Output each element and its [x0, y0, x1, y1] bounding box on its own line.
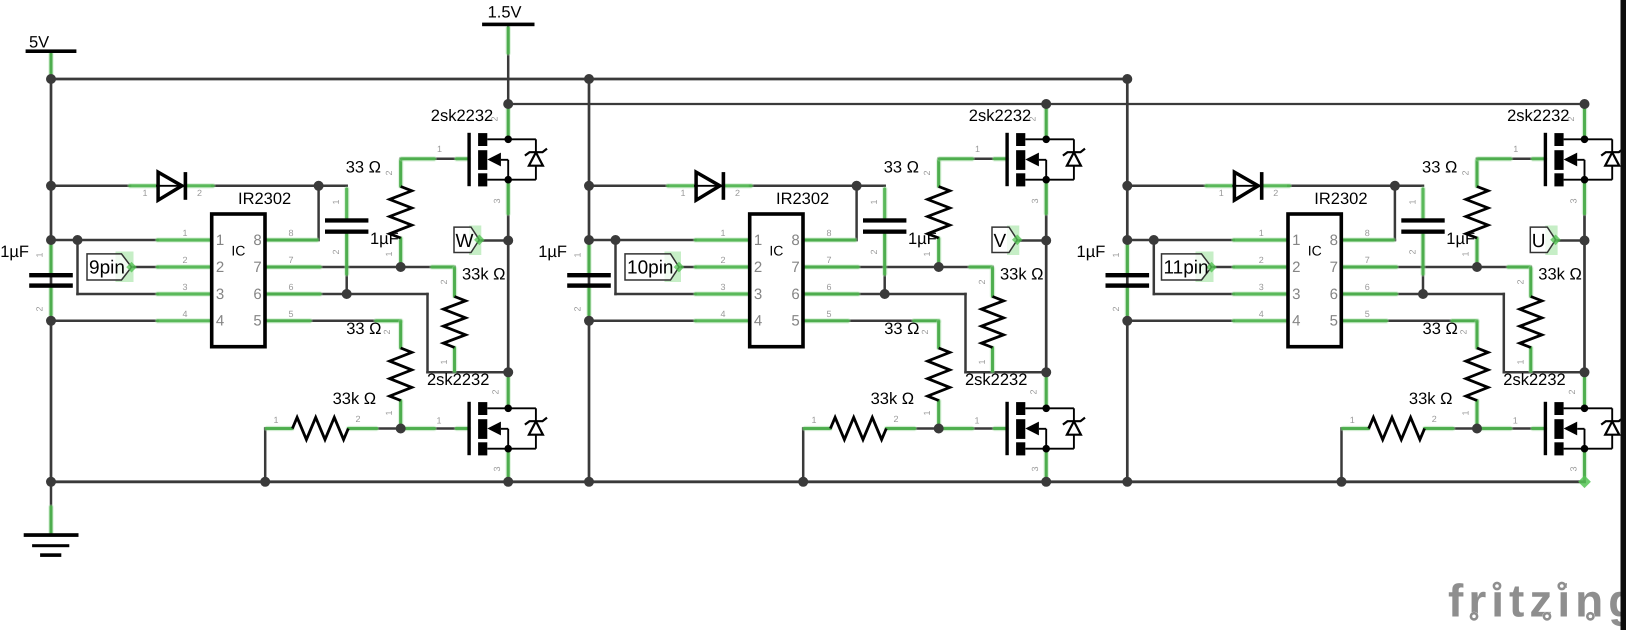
- wire: block 2 output label wire: [1017, 239, 1046, 242]
- svg-text:33 Ω: 33 Ω: [884, 159, 919, 177]
- transistor Q2L bottom 2sk2232: [1007, 402, 1085, 456]
- svg-text:6: 6: [253, 286, 261, 303]
- capacitor C3b 1uF (bootstrap): [1401, 199, 1475, 254]
- svg-text:33 Ω: 33 Ω: [1423, 320, 1458, 338]
- svg-text:4: 4: [754, 313, 762, 330]
- fritzing watermark: [1448, 575, 1626, 627]
- wire: block 2 IC pin 6 row: [803, 293, 966, 296]
- svg-text:1: 1: [35, 252, 45, 257]
- svg-text:1: 1: [1515, 359, 1525, 364]
- wire: block 2 top 33ohm stubs: [937, 159, 940, 187]
- svg-text:8: 8: [253, 232, 261, 249]
- svg-text:6: 6: [791, 286, 799, 303]
- svg-text:7: 7: [826, 255, 831, 265]
- wire: block 2 IC pin 5 row: [803, 320, 939, 323]
- svg-text:3: 3: [1568, 466, 1578, 471]
- svg-text:7: 7: [1365, 255, 1370, 265]
- junction dots block 2: [584, 74, 1051, 487]
- svg-text:8: 8: [826, 228, 831, 238]
- wire: block 3 IC pin 8 row: [1341, 239, 1395, 242]
- svg-text:2: 2: [355, 414, 360, 424]
- svg-text:6: 6: [1330, 286, 1338, 303]
- svg-text:2sk2232: 2sk2232: [1507, 107, 1569, 125]
- wire: block 2 IC pin 3 row: [616, 293, 696, 296]
- capacitor C2a 1uF (left electrolytic): [538, 243, 611, 312]
- resistor R2b 33k Ohm upper gate-source: [977, 266, 1044, 365]
- wire: block 1 diode junction to bootstrap cap: [319, 185, 347, 188]
- wire: block 3 IC pin 7 row to gate resistor: [1341, 266, 1531, 269]
- svg-text:7: 7: [253, 259, 261, 276]
- wire: block 3 top gate row: [1477, 158, 1544, 161]
- wire: block 3 diode row right segment to junction: [1288, 185, 1395, 188]
- svg-text:1: 1: [384, 251, 394, 256]
- diode D2 bootstrap: [680, 172, 740, 200]
- svg-text:5: 5: [253, 313, 261, 330]
- node label 10pin (input): [625, 252, 684, 283]
- svg-text:U: U: [1532, 231, 1546, 252]
- wire: block 2 33k vertical stubs: [991, 267, 994, 297]
- svg-text:2sk2232: 2sk2232: [431, 107, 493, 125]
- svg-text:2: 2: [491, 389, 501, 394]
- svg-text:4: 4: [182, 309, 187, 319]
- wire: block 3 top 33ohm stubs: [1476, 159, 1479, 187]
- svg-text:V: V: [994, 231, 1007, 252]
- svg-text:2: 2: [1029, 389, 1039, 394]
- wire: block 3 diode row left segment: [1127, 185, 1206, 188]
- svg-text:IC: IC: [231, 243, 245, 259]
- svg-text:1: 1: [977, 359, 987, 364]
- svg-text:6: 6: [826, 282, 831, 292]
- wire: block 3 pulldown 33k left leg: [1340, 429, 1343, 482]
- power symbol 5V: [26, 34, 77, 80]
- svg-text:2: 2: [439, 279, 449, 284]
- wire: block 3 IC pin 4 row: [1127, 320, 1234, 323]
- transistor Q2H top 2sk2232: [1007, 133, 1085, 187]
- svg-text:2: 2: [754, 259, 762, 276]
- wire: block 2 IC pin 8 row: [803, 239, 857, 242]
- svg-text:2: 2: [1432, 414, 1437, 424]
- wire: block 2 bottom gate row: [939, 427, 1006, 430]
- resistor R1b 33k Ohm upper gate-source: [439, 266, 506, 365]
- svg-text:2sk2232: 2sk2232: [969, 107, 1031, 125]
- power symbol 1.5V: [482, 4, 534, 105]
- wire: block 1 pulldown 33k row: [265, 427, 292, 430]
- svg-text:1: 1: [182, 228, 187, 238]
- svg-text:2: 2: [977, 279, 987, 284]
- svg-text:5V: 5V: [29, 34, 49, 52]
- svg-text:9pin: 9pin: [89, 257, 125, 278]
- wire: block 1 output label wire: [479, 239, 508, 242]
- op-amp/driver IC U3 IR2302: [1259, 190, 1370, 347]
- svg-text:1µF: 1µF: [0, 243, 29, 261]
- resistor R2c 33 Ohm bottom gate resistor: [884, 320, 979, 426]
- svg-text:1: 1: [142, 188, 147, 198]
- wire: block 1 IC pin 8 row: [265, 239, 319, 242]
- wire: block 1 bottom gate row: [401, 427, 468, 430]
- svg-text:1: 1: [331, 199, 341, 204]
- resistor R3d 33k Ohm pulldown: [1350, 390, 1453, 440]
- svg-text:2: 2: [490, 116, 500, 121]
- svg-text:IR2302: IR2302: [1314, 190, 1367, 208]
- wire: block 2 phase node vertical: [1045, 180, 1048, 373]
- svg-text:2: 2: [869, 249, 879, 254]
- wire: block 1 bottom 33ohm stubs: [399, 321, 402, 348]
- wire: block 3 33k vertical stubs: [1530, 267, 1533, 297]
- wire: block 1 top 33ohm stubs: [399, 159, 402, 187]
- wire: block 3 output label wire: [1556, 239, 1585, 242]
- svg-text:1: 1: [1460, 410, 1470, 415]
- wire: block 3 lower drain row: [1504, 371, 1585, 374]
- svg-text:3: 3: [754, 286, 762, 303]
- svg-text:2sk2232: 2sk2232: [965, 371, 1027, 389]
- wire: block 1 diode row left segment: [51, 185, 130, 188]
- svg-text:1: 1: [1292, 232, 1300, 249]
- node label W (phase output): [454, 226, 485, 256]
- wire: block 3 bottom mosfet source stub: [1583, 449, 1586, 482]
- wire: block 1 phase node vertical: [507, 180, 510, 373]
- svg-text:2: 2: [197, 188, 202, 198]
- svg-text:IR2302: IR2302: [238, 190, 291, 208]
- resistor R3a 33 Ohm top gate resistor: [1422, 144, 1518, 257]
- wire: block 1 diode row right segment to junction: [212, 185, 319, 188]
- svg-text:33k Ω: 33k Ω: [1000, 266, 1044, 284]
- svg-text:1: 1: [720, 228, 725, 238]
- wire: block 2 input label to IC pin 2: [679, 266, 696, 269]
- wire: 1.5V rail right drop to U phase mosfet: [1583, 104, 1585, 139]
- svg-text:2: 2: [893, 414, 898, 424]
- svg-text:3: 3: [720, 282, 725, 292]
- wire: block 3 phase node vertical: [1583, 180, 1586, 373]
- svg-text:7: 7: [791, 259, 799, 276]
- wire: block 3 pulldown 33k row: [1342, 427, 1369, 430]
- node label V (phase output): [992, 226, 1023, 256]
- svg-text:2: 2: [922, 170, 932, 175]
- svg-text:2: 2: [35, 306, 45, 311]
- wire: block 1 IC pin 1 row: [51, 239, 158, 242]
- svg-text:33 Ω: 33 Ω: [346, 320, 381, 338]
- svg-text:1: 1: [754, 232, 762, 249]
- svg-text:3: 3: [1292, 286, 1300, 303]
- svg-text:2: 2: [182, 255, 187, 265]
- svg-text:33 Ω: 33 Ω: [884, 320, 919, 338]
- wire: block 3 IC pin 1 row: [1127, 239, 1234, 242]
- resistor R3c 33 Ohm bottom gate resistor: [1423, 320, 1518, 426]
- wire: 5V top distribution rail: [51, 78, 1127, 81]
- wire: block 3 bottom mosfet drain stub: [1583, 372, 1586, 408]
- wire: block 1 vertical from diode junction to IC pin 8: [317, 186, 320, 240]
- svg-text:5: 5: [288, 309, 293, 319]
- wire: block 2 bottom 33ohm stubs: [937, 321, 940, 348]
- svg-text:2: 2: [1273, 188, 1278, 198]
- wire: block 2 diode junction to bootstrap cap: [857, 185, 885, 188]
- svg-text:2: 2: [573, 306, 583, 311]
- wire: block 1 pin 6 vertical down: [426, 294, 429, 372]
- capacitor C1b 1uF (bootstrap): [325, 199, 399, 254]
- wire: block 2 vertical from diode junction to IC pin 8: [855, 186, 858, 240]
- svg-text:33 Ω: 33 Ω: [346, 159, 381, 177]
- svg-text:33k Ω: 33k Ω: [1538, 266, 1582, 284]
- svg-text:1µF: 1µF: [1077, 243, 1106, 261]
- svg-text:8: 8: [1365, 228, 1370, 238]
- svg-text:2: 2: [1460, 170, 1470, 175]
- resistor R1c 33 Ohm bottom gate resistor: [346, 320, 441, 426]
- resistor R1a 33 Ohm top gate resistor: [346, 144, 442, 257]
- svg-text:3: 3: [1259, 282, 1264, 292]
- wire: block 2 top gate row: [939, 158, 1006, 161]
- green pin highlights block 1: [51, 106, 508, 478]
- wire: block 2 diode row left segment: [589, 185, 668, 188]
- wire: block 1 IC pin 7 row to gate resistor: [265, 266, 455, 269]
- svg-text:7: 7: [288, 255, 293, 265]
- wire: block 2 top mosfet drain stub: [1045, 104, 1048, 139]
- wire: block 2 pulldown 33k left leg: [802, 429, 805, 482]
- svg-text:1µF: 1µF: [538, 243, 567, 261]
- capacitor C3a 1uF (left electrolytic): [1077, 243, 1150, 312]
- op-amp/driver IC U2 IR2302: [720, 190, 831, 347]
- wire: block 3 left supply rail vertical: [1126, 79, 1129, 482]
- wire: block 3 IC pin 3 row: [1154, 293, 1234, 296]
- svg-text:2: 2: [1111, 306, 1121, 311]
- op-amp/driver IC U1 IR2302: [182, 190, 293, 347]
- wire: block 2 bottom mosfet source stub: [1045, 449, 1048, 482]
- svg-text:3: 3: [492, 466, 502, 471]
- svg-text:8: 8: [288, 228, 293, 238]
- svg-text:5: 5: [1365, 309, 1370, 319]
- svg-text:2: 2: [735, 188, 740, 198]
- right border bar: [1621, 0, 1626, 630]
- svg-text:2: 2: [331, 249, 341, 254]
- svg-text:1: 1: [869, 199, 879, 204]
- svg-text:IC: IC: [1308, 243, 1322, 259]
- diode D3 bootstrap: [1219, 172, 1279, 200]
- svg-text:2: 2: [1567, 389, 1577, 394]
- wire: block 3 IC pin 6 row: [1341, 293, 1504, 296]
- wire: block 1 bottom mosfet source stub: [507, 449, 510, 482]
- transistor Q3L bottom 2sk2232: [1545, 402, 1623, 456]
- svg-text:3: 3: [492, 198, 502, 203]
- svg-text:10pin: 10pin: [627, 257, 674, 278]
- wire: block 1 branch vertical to pin 3: [76, 240, 79, 294]
- svg-text:33k Ω: 33k Ω: [333, 390, 377, 408]
- svg-text:1: 1: [1350, 415, 1355, 425]
- junction dots block 3: [1122, 74, 1591, 488]
- svg-text:2: 2: [216, 259, 224, 276]
- resistor R2a 33 Ohm top gate resistor: [884, 144, 980, 257]
- svg-text:1: 1: [436, 416, 441, 426]
- svg-text:1: 1: [1513, 416, 1518, 426]
- wire: block 3 input label to IC pin 2: [1212, 266, 1234, 269]
- wire: block 1 IC pin 6 row: [265, 293, 428, 296]
- svg-text:1: 1: [216, 232, 224, 249]
- svg-text:5: 5: [791, 313, 799, 330]
- svg-text:2: 2: [1259, 255, 1264, 265]
- node label 9pin (input): [87, 252, 137, 283]
- wire: block 3 diode junction to bootstrap cap: [1395, 185, 1423, 188]
- svg-text:1: 1: [975, 144, 980, 154]
- wire: block 3 branch vertical to pin 3: [1153, 240, 1156, 294]
- wire: block 3 pin 6 vertical down: [1503, 294, 1506, 372]
- svg-text:2: 2: [384, 170, 394, 175]
- svg-text:8: 8: [791, 232, 799, 249]
- svg-text:1: 1: [273, 415, 278, 425]
- wire: block 1 input label to IC pin 2: [132, 266, 158, 269]
- wire: block 2 branch vertical to pin 3: [614, 240, 617, 294]
- svg-text:2: 2: [1028, 116, 1038, 121]
- wire: block 3 top mosfet drain stub: [1583, 104, 1586, 139]
- svg-text:4: 4: [1292, 313, 1300, 330]
- svg-text:5: 5: [1330, 313, 1338, 330]
- wire: block 1 IC pin 5 row: [265, 320, 401, 323]
- svg-text:1: 1: [437, 144, 442, 154]
- svg-text:1: 1: [922, 410, 932, 415]
- resistor R3b 33k Ohm upper gate-source: [1515, 266, 1582, 365]
- wire: block 3 bottom 33ohm stubs: [1476, 321, 1479, 348]
- resistor R2d 33k Ohm pulldown: [811, 390, 914, 440]
- wire: block 2 left supply rail vertical: [588, 79, 591, 482]
- svg-text:1: 1: [1460, 251, 1470, 256]
- svg-text:33k Ω: 33k Ω: [871, 390, 915, 408]
- wire: block 2 pulldown 33k row: [803, 427, 830, 430]
- transistor Q3H top 2sk2232: [1545, 133, 1623, 187]
- svg-text:1: 1: [384, 410, 394, 415]
- wire: block 1 pulldown 33k left leg: [264, 429, 267, 482]
- svg-text:2: 2: [1566, 116, 1576, 121]
- svg-text:2: 2: [920, 329, 930, 334]
- wire: block 2 bootstrap cap to pin 6 row: [883, 232, 886, 294]
- diode D1 bootstrap: [142, 172, 202, 200]
- svg-text:6: 6: [1365, 282, 1370, 292]
- wire: block 1 top mosfet drain stub: [507, 104, 510, 139]
- junction dots block 1: [46, 74, 513, 487]
- wire: block 2 bottom mosfet drain stub: [1045, 372, 1048, 408]
- wire: block 3 bootstrap cap to pin 6 row: [1422, 232, 1425, 294]
- svg-text:33 Ω: 33 Ω: [1422, 159, 1457, 177]
- wire: block 2 IC pin 7 row to gate resistor: [803, 266, 993, 269]
- wire: block 2 diode row right segment to junction: [750, 185, 857, 188]
- svg-text:1: 1: [1408, 199, 1418, 204]
- wire: block 1 bottom mosfet drain stub: [507, 372, 510, 408]
- svg-text:1: 1: [439, 359, 449, 364]
- transistor Q1H top 2sk2232: [469, 133, 547, 187]
- svg-text:1: 1: [811, 415, 816, 425]
- ground symbol: [24, 482, 79, 557]
- svg-text:1: 1: [1513, 144, 1518, 154]
- node label U (phase output): [1530, 226, 1561, 256]
- wire: block 2 lower drain row: [966, 371, 1047, 374]
- svg-text:5: 5: [826, 309, 831, 319]
- svg-text:1: 1: [922, 251, 932, 256]
- svg-text:1: 1: [974, 416, 979, 426]
- svg-text:6: 6: [288, 282, 293, 292]
- svg-text:2: 2: [1515, 279, 1525, 284]
- svg-text:1: 1: [573, 252, 583, 257]
- svg-text:1: 1: [1111, 252, 1121, 257]
- svg-text:1: 1: [1259, 228, 1264, 238]
- svg-text:4: 4: [1259, 309, 1264, 319]
- green pin highlights block 2: [589, 106, 1046, 478]
- svg-text:IR2302: IR2302: [776, 190, 829, 208]
- wire: block 1 IC pin 4 row: [51, 320, 158, 323]
- wire: ground bottom rail: [51, 480, 1585, 483]
- svg-text:1: 1: [1219, 188, 1224, 198]
- svg-text:IC: IC: [769, 243, 783, 259]
- wire: block 3 IC pin 5 row: [1341, 320, 1477, 323]
- svg-text:W: W: [456, 231, 474, 252]
- svg-text:33k Ω: 33k Ω: [462, 266, 506, 284]
- wire: block 1 bootstrap cap to pin 6 row: [345, 232, 348, 294]
- capacitor C2b 1uF (bootstrap): [863, 199, 937, 254]
- svg-text:2: 2: [382, 329, 392, 334]
- svg-text:3: 3: [182, 282, 187, 292]
- wire: block 1 lower drain row: [428, 371, 509, 374]
- wire: block 1 left supply rail vertical: [50, 79, 53, 482]
- transistor Q1L bottom 2sk2232: [469, 402, 547, 456]
- svg-text:3: 3: [1030, 198, 1040, 203]
- wire: block 1 33k vertical stubs: [453, 267, 456, 297]
- svg-text:1: 1: [680, 188, 685, 198]
- capacitor C1a 1uF (left electrolytic): [0, 243, 73, 312]
- wire: block 3 bottom gate row: [1477, 427, 1544, 430]
- svg-text:11pin: 11pin: [1164, 257, 1209, 278]
- wire: block 2 pin 6 vertical down: [964, 294, 967, 372]
- resistor R1d 33k Ohm pulldown: [273, 390, 376, 440]
- node label 11pin (input): [1162, 252, 1217, 283]
- svg-text:2: 2: [720, 255, 725, 265]
- svg-text:2: 2: [1292, 259, 1300, 276]
- wire: block 1 IC pin 3 row: [78, 293, 158, 296]
- green pin highlights block 3: [1127, 106, 1584, 478]
- wire: block 2 IC pin 1 row: [589, 239, 696, 242]
- svg-text:7: 7: [1330, 259, 1338, 276]
- svg-text:4: 4: [216, 313, 224, 330]
- svg-text:2: 2: [1458, 329, 1468, 334]
- svg-text:2sk2232: 2sk2232: [427, 371, 489, 389]
- wire: block 1 top gate row: [401, 158, 468, 161]
- svg-text:8: 8: [1330, 232, 1338, 249]
- svg-text:1.5V: 1.5V: [488, 4, 522, 22]
- svg-text:2: 2: [1408, 249, 1418, 254]
- svg-text:2sk2232: 2sk2232: [1503, 371, 1565, 389]
- wire: block 3 vertical from diode junction to IC pin 8: [1394, 186, 1397, 240]
- wire: block 2 IC pin 4 row: [589, 320, 696, 323]
- svg-text:3: 3: [216, 286, 224, 303]
- svg-text:3: 3: [1030, 466, 1040, 471]
- svg-text:3: 3: [1568, 198, 1578, 203]
- svg-text:4: 4: [720, 309, 725, 319]
- wire: 1.5V motor supply rail: [508, 103, 1584, 105]
- svg-text:33k Ω: 33k Ω: [1409, 390, 1453, 408]
